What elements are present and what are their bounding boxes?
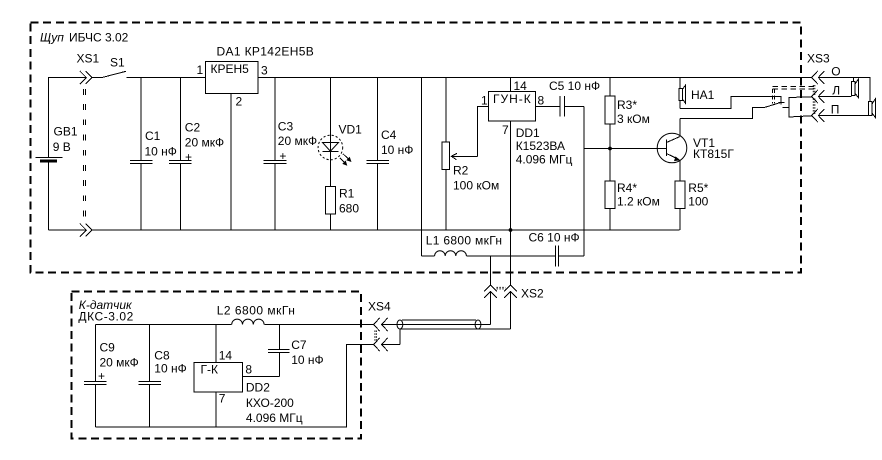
- svg-text:C1: C1: [145, 129, 161, 143]
- svg-text:S1: S1: [110, 56, 125, 70]
- svg-text:R4*: R4*: [617, 181, 637, 195]
- wire emitter to R5: [679, 160, 681, 181]
- svg-text:R5*: R5*: [688, 181, 708, 195]
- svg-text:ДКС-3.02: ДКС-3.02: [78, 309, 133, 323]
- svg-text:7: 7: [502, 123, 509, 137]
- svg-text:+: +: [279, 149, 286, 163]
- connector XS1 bottom contact: [80, 224, 92, 237]
- svg-text:10 нФ: 10 нФ: [145, 144, 177, 158]
- svg-text:R3*: R3*: [617, 98, 637, 112]
- svg-text:1.2 кОм: 1.2 кОм: [617, 195, 660, 209]
- svg-text:8: 8: [245, 362, 252, 376]
- wire base line: [584, 148, 667, 150]
- svg-text:С6 10 нФ: С6 10 нФ: [529, 231, 580, 245]
- svg-text:10 нФ: 10 нФ: [154, 362, 186, 376]
- svg-text:КРЕН5: КРЕН5: [211, 62, 250, 76]
- svg-text:1: 1: [197, 63, 204, 77]
- wire DD1 pin7 down to XS2: [510, 121, 512, 285]
- svg-text:О: О: [831, 64, 840, 78]
- svg-text:10 нФ: 10 нФ: [381, 143, 413, 157]
- voltage regulator DA1 КРЕН5: [197, 45, 315, 109]
- svg-text:XS1: XS1: [77, 52, 100, 66]
- svg-text:L1 6800 мкГн: L1 6800 мкГн: [426, 234, 503, 248]
- connector XS3 contact П: [812, 102, 840, 122]
- svg-text:C7: C7: [291, 338, 307, 352]
- potentiometer R2: [442, 78, 499, 231]
- svg-text:10 нФ: 10 нФ: [291, 353, 323, 367]
- svg-text:VD1: VD1: [339, 123, 363, 137]
- resistor R1: [326, 187, 360, 231]
- XS3 dotted linkage: [813, 85, 815, 114]
- svg-text:C2: C2: [185, 121, 201, 135]
- svg-text:XS3: XS3: [807, 52, 830, 66]
- inductor L1: [422, 234, 555, 257]
- svg-text:4.096 МГц: 4.096 МГц: [516, 153, 573, 167]
- phone capsule right: [869, 99, 876, 117]
- svg-text:C9: C9: [100, 340, 116, 354]
- svg-text:DD1: DD1: [516, 126, 540, 140]
- sensor dashed enclosure box: [72, 292, 362, 439]
- svg-text:КТ815Г: КТ815Г: [693, 147, 734, 161]
- label XS3: [807, 52, 830, 66]
- wire top rail to regulator: [127, 77, 206, 79]
- resistor R3: [605, 78, 650, 149]
- wire HA1 to jack contact: [680, 96, 781, 108]
- label Щуп ИБЧС 3.02: [40, 31, 129, 45]
- svg-text:14: 14: [514, 79, 528, 93]
- wire bottom rail: [49, 229, 680, 231]
- connector XS4 contact 1: [374, 318, 388, 331]
- svg-text:14: 14: [219, 348, 233, 362]
- wire DA1 pin2 to ground: [230, 94, 232, 231]
- probe dashed enclosure box: [31, 23, 802, 273]
- svg-text:XS2: XS2: [521, 286, 544, 300]
- svg-text:XS4: XS4: [368, 299, 391, 313]
- svg-text:ИБЧС 3.02: ИБЧС 3.02: [69, 31, 129, 45]
- svg-text:4.096 МГц: 4.096 МГц: [246, 411, 303, 425]
- phone capsule left: [852, 79, 859, 97]
- connector XS2 right contact: [504, 285, 544, 329]
- connector XS3 contact Л: [812, 83, 840, 103]
- resistor R5: [675, 181, 709, 230]
- wire top rail left (battery to XS1): [49, 78, 87, 158]
- LED VD1: [318, 78, 362, 187]
- wire DD2 pin7: [215, 392, 217, 427]
- capacitor C9: [84, 325, 139, 428]
- wire collector to jack lever: [680, 107, 765, 118]
- svg-text:HA1: HA1: [691, 88, 715, 102]
- label К-датчик ДКС-3.02: [78, 298, 133, 323]
- svg-text:L2 6800 мкГн: L2 6800 мкГн: [217, 303, 296, 317]
- junction dot pin7 ground: [509, 228, 513, 232]
- svg-text:DD2: DD2: [246, 380, 270, 394]
- inductor L2: [217, 303, 296, 324]
- wire DD2 pin8 to C7: [243, 375, 280, 377]
- svg-text:1: 1: [481, 94, 488, 108]
- wire Л to left phone: [818, 96, 851, 98]
- capacitor C4: [367, 78, 414, 231]
- sensor bottom wire: [95, 345, 373, 428]
- wire П to right phone: [818, 115, 868, 117]
- svg-text:2: 2: [236, 95, 243, 109]
- jack plug body XS3: [783, 97, 812, 117]
- label XS4: [368, 299, 391, 313]
- svg-text:С5 10 нФ: С5 10 нФ: [549, 79, 600, 93]
- connector XS2 left contact: [484, 256, 497, 325]
- svg-text:+: +: [98, 369, 105, 383]
- battery GB1: [36, 125, 78, 231]
- svg-text:C3: C3: [278, 120, 294, 134]
- capacitor C6: [529, 231, 585, 267]
- svg-text:3 кОм: 3 кОм: [617, 112, 650, 126]
- svg-text:3: 3: [261, 64, 268, 78]
- capacitor C1: [130, 78, 177, 231]
- connector XS1 top contact: [80, 71, 92, 84]
- svg-text:К1523ВА: К1523ВА: [516, 139, 565, 153]
- svg-text:ГУН-К: ГУН-К: [493, 92, 532, 106]
- wire collector up: [679, 119, 681, 137]
- svg-text:C8: C8: [154, 348, 170, 362]
- connector XS3 contact О: [812, 64, 841, 84]
- capacitor C8: [139, 325, 187, 428]
- svg-text:C4: C4: [381, 128, 397, 142]
- XS1 cable dashed pair: [83, 89, 85, 218]
- svg-text:R2: R2: [453, 164, 469, 178]
- svg-text:+: +: [185, 150, 192, 164]
- svg-text:GB1: GB1: [54, 125, 78, 139]
- jack switch lever: [765, 102, 785, 107]
- wire C5 output down to L1 line: [583, 107, 585, 257]
- svg-text:7: 7: [219, 391, 226, 405]
- svg-text:20 мкФ: 20 мкФ: [185, 136, 224, 150]
- svg-text:8: 8: [538, 94, 545, 108]
- sensor top wire: [95, 324, 373, 326]
- svg-text:R1: R1: [339, 187, 355, 201]
- svg-text:100: 100: [688, 195, 708, 209]
- svg-text:20 мкФ: 20 мкФ: [100, 355, 139, 369]
- XS2 dotted linkage: [497, 287, 506, 289]
- svg-text:DA1 КР142ЕН5В: DA1 КР142ЕН5В: [217, 45, 315, 59]
- svg-text:Щуп: Щуп: [40, 31, 64, 45]
- resistor R4: [605, 149, 660, 231]
- capacitor C5: [535, 79, 600, 117]
- speaker HA1: [679, 78, 715, 109]
- switch S1: [92, 56, 126, 78]
- svg-text:КХО-200: КХО-200: [246, 396, 294, 410]
- svg-text:Л: Л: [832, 83, 840, 97]
- transistor VT1: [657, 133, 734, 163]
- svg-text:Г-К: Г-К: [201, 362, 218, 376]
- wire DD2 pin14: [215, 325, 217, 363]
- capacitor C2: [169, 78, 224, 231]
- shielded cable between XS2 and XS4: [382, 320, 511, 329]
- svg-text:680: 680: [339, 202, 359, 216]
- capacitor C3: [264, 78, 318, 231]
- svg-text:20 мкФ: 20 мкФ: [278, 134, 317, 148]
- oscillator DD2 Г-К: [194, 348, 303, 425]
- mechanical link dashed: [773, 86, 815, 103]
- svg-text:П: П: [831, 102, 840, 116]
- XS4 dotted linkage: [375, 331, 377, 342]
- label XS1: [77, 52, 100, 66]
- connector XS4 contact 2: [374, 329, 400, 351]
- junction dot R3 base: [608, 147, 612, 151]
- capacitor C7: [268, 325, 324, 377]
- wire R2 wiper to DD1 pin1: [477, 94, 488, 157]
- wire top rail right of DA1: [258, 77, 812, 79]
- wire О to phones common: [818, 78, 870, 102]
- svg-text:9 В: 9 В: [53, 140, 71, 154]
- svg-text:100 кОм: 100 кОм: [453, 179, 499, 193]
- oscillator DD1 ГУН-К: [488, 79, 572, 167]
- wire rail to L1 node: [421, 78, 423, 257]
- wire DD1 pin14 to rail: [510, 78, 512, 92]
